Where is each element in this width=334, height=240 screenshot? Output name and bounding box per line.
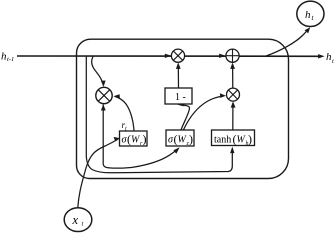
wire: h branch down left side to bottom rail feeding tanh (86, 57, 232, 173)
arrowhead at right end of h line (318, 54, 325, 58)
x(t) input circle bottom left (64, 208, 92, 232)
big reset multiply circle (96, 87, 112, 103)
box sigma(Wr) (120, 131, 148, 147)
wire: wavy h branch into big multiply top (92, 57, 104, 86)
wire: z curve from sigma(Wz) top to right multiply left side (184, 96, 223, 130)
wire: z curve from sigma(Wz) top hooking into 1- box bottom (181, 105, 190, 130)
wire: vertical from right multiply up into plus (232, 65, 234, 89)
svg-text:h: h (305, 9, 311, 21)
arrowhead into sigma(Wz) bottom (174, 147, 180, 154)
svg-text:x: x (72, 213, 79, 227)
svg-text:t: t (82, 221, 84, 228)
svg-text:): ) (189, 132, 193, 146)
arrowhead into plus (219, 54, 226, 58)
wire: h(t-1) -> h(t) main horizontal line (17, 55, 322, 57)
GRU cell body (rounded rectangle) (77, 39, 289, 178)
arrowhead into gate multiply (165, 54, 172, 58)
arrowhead into tanh box bottom (230, 147, 234, 154)
box sigma(Wz) (166, 130, 194, 147)
svg-text:): ) (248, 132, 252, 146)
plus circle (on h line) (226, 49, 239, 62)
h(t) output circle top right (297, 1, 324, 26)
wire: x(t) input curve to sigma(Wr) (78, 140, 118, 208)
right multiply circle (227, 88, 240, 101)
arrowhead up into big multiply bottom (101, 104, 106, 110)
wire: vertical from 1- box up into gate multiply (177, 65, 179, 89)
svg-text:tanh: tanh (214, 135, 231, 146)
wire: bottom swoop from big-multiply stem to sigma(Wz) bottom (103, 105, 178, 169)
wire: r(t) curve from sigma(Wr) top to big multiply right (116, 97, 135, 131)
gate multiply circle (on h line) (171, 49, 184, 62)
wire: curve from h line up to h(t) circle (266, 29, 309, 56)
box 1- (165, 88, 192, 104)
svg-text:): ) (143, 132, 147, 146)
svg-text:1 -: 1 - (175, 92, 186, 103)
svg-text:t-1: t-1 (7, 56, 14, 63)
wire: vertical from tanh box up into right multiply (232, 104, 234, 131)
box tanh(Wh) (212, 130, 255, 147)
